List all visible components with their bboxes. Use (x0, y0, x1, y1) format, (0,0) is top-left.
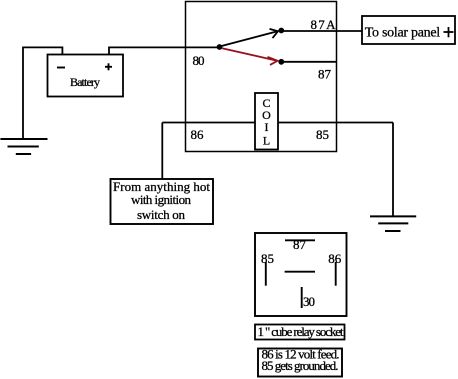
wire 87A to solar panel box (281, 30, 362, 32)
svg-text:87A: 87A (311, 17, 337, 32)
wire 87 stub to relay edge (281, 61, 336, 63)
coil box (255, 93, 278, 150)
battery B1 body (48, 55, 124, 97)
svg-text:1 " cube relay socket: 1 " cube relay socket (258, 324, 344, 339)
wire coil left (86 side) (162, 122, 255, 124)
svg-text:L: L (263, 134, 270, 148)
socket pin 30 blade (vertical) (301, 287, 303, 308)
svg-text:switch on: switch on (137, 207, 186, 222)
ignition feed box (111, 179, 214, 224)
wire battery plus to pin 80 (109, 47, 220, 54)
svg-text:85: 85 (261, 251, 274, 266)
svg-text:To solar panel: To solar panel (365, 26, 441, 41)
wire 85 down to ground (392, 123, 394, 217)
socket pin 87 blade (285, 239, 315, 241)
svg-text:I: I (265, 120, 269, 134)
ignition feed text (113, 179, 210, 222)
node 87 contact (278, 59, 284, 65)
svg-text:87: 87 (318, 66, 332, 81)
solar panel box (362, 16, 455, 44)
svg-text:30: 30 (303, 294, 315, 309)
solar panel plus sign (444, 27, 454, 37)
svg-text:85 gets grounded.: 85 gets grounded. (262, 358, 339, 373)
relay socket box (255, 233, 347, 316)
svg-text:Battery: Battery (70, 75, 100, 89)
battery plus terminal label (105, 63, 112, 70)
battery minus terminal label (57, 67, 65, 69)
note box (258, 349, 342, 377)
socket pin 86 blade (335, 262, 337, 286)
svg-text:87: 87 (293, 237, 307, 252)
ground GND2 (370, 216, 416, 231)
socket caption box (255, 325, 345, 340)
node 87A contact (278, 28, 284, 34)
svg-text:80: 80 (193, 53, 205, 68)
switch arm to 87 (red arrow) (222, 48, 278, 65)
coil letters (262, 96, 271, 148)
socket pin 30 blade (middle) (285, 271, 315, 273)
ground GND1 (0, 139, 47, 154)
wire coil right (85 side) (278, 122, 393, 124)
svg-text:86: 86 (191, 127, 205, 142)
node common pole junction (217, 44, 223, 50)
svg-text:with ignition: with ignition (131, 192, 192, 207)
wire battery minus to ground (23, 47, 62, 139)
wire 86 down to ignition box (161, 123, 163, 180)
switch arm to 87A (black arrow) (222, 29, 279, 46)
svg-text:85: 85 (316, 127, 329, 142)
socket pin 85 blade (265, 262, 267, 286)
relay K1 body (186, 2, 337, 152)
